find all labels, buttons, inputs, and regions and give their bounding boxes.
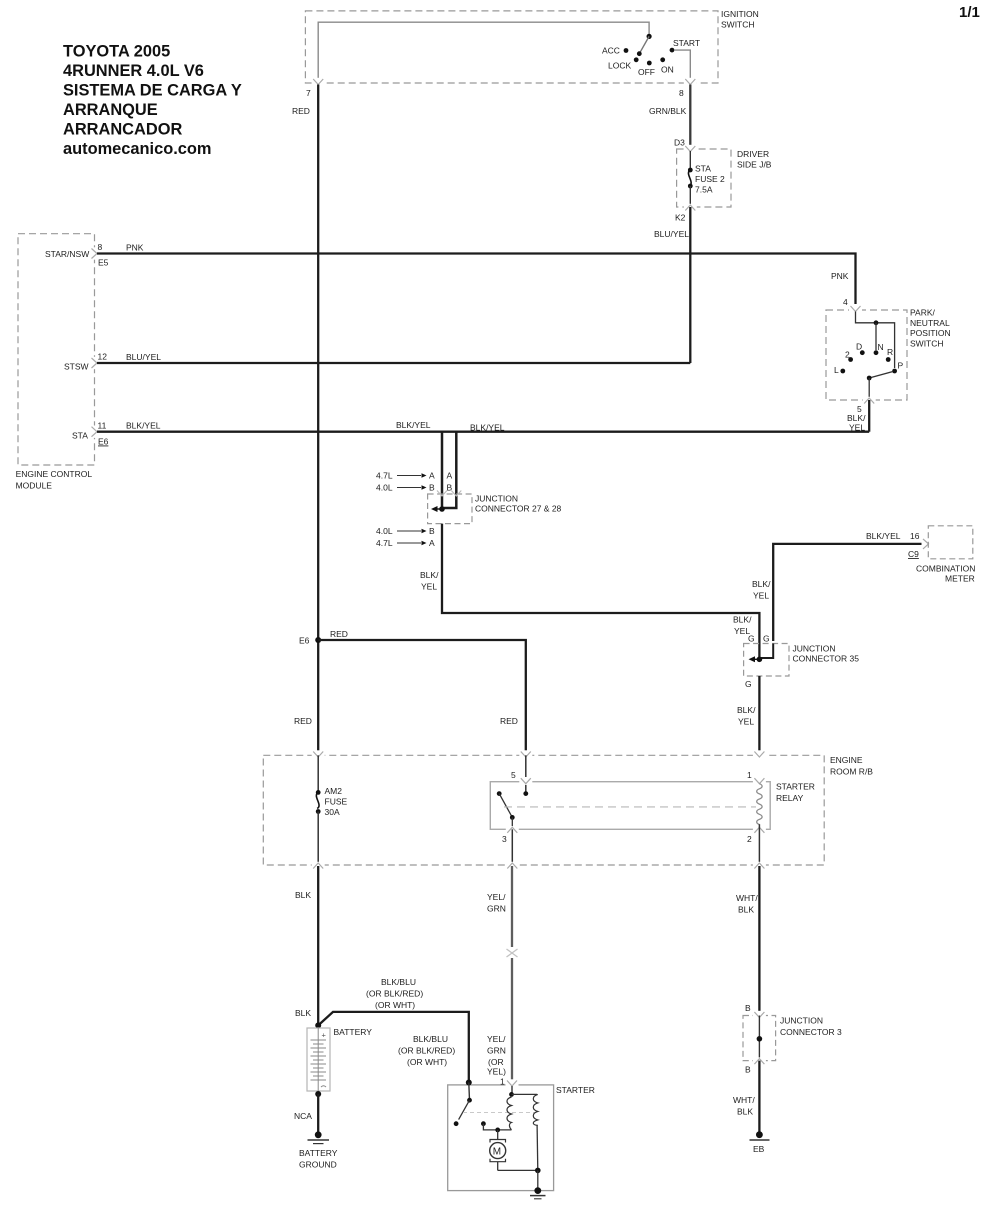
wire drop A (4.7L) to junction connector 27&28 bbox=[441, 432, 444, 509]
svg-text:GRN/BLK: GRN/BLK bbox=[649, 106, 687, 116]
collar pin (BLK) bottom bbox=[312, 862, 325, 870]
junction connector 27 & 28 box bbox=[428, 494, 562, 524]
junction dot inside JC27&28 bbox=[439, 506, 445, 512]
wire BLU/YEL ECM pin12 to K2 drop bbox=[97, 362, 690, 364]
svg-text:E6: E6 bbox=[299, 636, 310, 646]
svg-text:BATTERY: BATTERY bbox=[334, 1027, 373, 1037]
label 4.0L with arrow to B (upper) bbox=[376, 483, 435, 493]
svg-text:BLK: BLK bbox=[738, 905, 754, 915]
relay switch lever bbox=[499, 794, 512, 818]
wire RED branch E6 to starter relay pin 5 bbox=[318, 640, 526, 755]
label BLK/YEL above JC35 left pin bbox=[733, 615, 752, 637]
left arrow inside JC27&28 bbox=[431, 506, 438, 512]
svg-text:BLK: BLK bbox=[737, 1107, 753, 1117]
junction connector 3 box bbox=[743, 1016, 842, 1061]
svg-text:STSW: STSW bbox=[64, 362, 89, 372]
wire BLK/YEL ECM pin11 to P/N switch pin 5 bbox=[97, 431, 869, 433]
pin 8 collar bbox=[679, 78, 697, 98]
svg-text:WHT/: WHT/ bbox=[736, 893, 758, 903]
svg-text:PNK: PNK bbox=[126, 243, 144, 253]
svg-text:(OR BLK/RED): (OR BLK/RED) bbox=[366, 989, 423, 999]
relay mechanical link (dashed) bbox=[504, 806, 756, 808]
svg-text:B: B bbox=[429, 526, 435, 536]
wire RED vertical pin7 to engine room R/B bbox=[317, 85, 319, 756]
wire WHT/BLK engine room to JC3 bbox=[758, 866, 760, 1014]
wire inside ignition switch (pin7 to AM1 feed) bbox=[318, 22, 649, 82]
svg-text:4.0L: 4.0L bbox=[376, 526, 393, 536]
svg-text:5: 5 bbox=[511, 770, 516, 780]
svg-text:YEL: YEL bbox=[421, 582, 437, 592]
relay pin 5 collar bbox=[519, 777, 532, 785]
svg-text:FUSE 2: FUSE 2 bbox=[695, 174, 725, 184]
svg-text:D3: D3 bbox=[674, 138, 685, 148]
label BATTERY GROUND bbox=[299, 1148, 338, 1170]
svg-text:K2: K2 bbox=[675, 213, 686, 223]
ignition switch lever bbox=[639, 36, 649, 53]
svg-text:A: A bbox=[429, 538, 435, 548]
contact ON bbox=[660, 57, 673, 74]
left arrow inside JC35 bbox=[749, 656, 756, 662]
pin 7 collar bbox=[306, 78, 325, 98]
svg-text:30A: 30A bbox=[325, 807, 340, 817]
svg-text:ARRANQUE: ARRANQUE bbox=[63, 101, 158, 119]
svg-text:8: 8 bbox=[679, 88, 684, 98]
wire BLK/BLU battery to starter contact bbox=[318, 1012, 469, 1083]
svg-text:CONNECTOR 3: CONNECTOR 3 bbox=[780, 1027, 842, 1037]
svg-text:L: L bbox=[834, 365, 839, 375]
contact N bbox=[874, 342, 884, 355]
svg-text:G: G bbox=[763, 634, 770, 644]
contact D bbox=[856, 342, 865, 356]
svg-text:N: N bbox=[878, 342, 884, 352]
svg-text:CONNECTOR 35: CONNECTOR 35 bbox=[793, 654, 860, 664]
svg-text:PNK: PNK bbox=[831, 271, 849, 281]
starter B terminal node bbox=[466, 1080, 472, 1086]
wire inside P/N switch from pin 4 bbox=[856, 312, 895, 369]
svg-text:NCA: NCA bbox=[294, 1111, 312, 1121]
wire lever to pin 5 bbox=[868, 378, 870, 398]
inline connector on YEL/GRN wire bbox=[505, 947, 519, 958]
wire BLK engine room to battery bbox=[317, 866, 319, 1025]
driver side J/B box bbox=[677, 149, 772, 207]
JC35 internal wires bbox=[760, 644, 773, 659]
combination meter box bbox=[916, 526, 975, 584]
svg-text:TOYOTA 2005: TOYOTA 2005 bbox=[63, 43, 170, 61]
svg-text:1: 1 bbox=[747, 770, 752, 780]
pin 16 collar bbox=[922, 538, 931, 550]
motor M bbox=[490, 1140, 506, 1171]
svg-text:BLU/YEL: BLU/YEL bbox=[654, 229, 689, 239]
svg-text:M: M bbox=[493, 1147, 501, 1158]
svg-text:BLK/: BLK/ bbox=[847, 413, 866, 423]
battery negative node bbox=[315, 1091, 321, 1097]
starter ground bbox=[530, 1187, 546, 1199]
contact R bbox=[886, 347, 893, 362]
fuse STA FUSE 2 7.5A bbox=[688, 151, 725, 207]
svg-text:SWITCH: SWITCH bbox=[721, 20, 755, 30]
svg-text:STARTER: STARTER bbox=[556, 1085, 595, 1095]
JC3 pin collar bottom bbox=[753, 1057, 766, 1065]
svg-text:STA: STA bbox=[72, 431, 88, 441]
wire hold-in coil to bottom rail bbox=[536, 1125, 539, 1170]
pin labels A B (right column upper) bbox=[447, 471, 453, 493]
svg-text:RED: RED bbox=[500, 716, 518, 726]
wire GRN/BLK pin 8 to driver side J/B bbox=[689, 85, 691, 152]
svg-text:BLK: BLK bbox=[295, 1008, 311, 1018]
svg-text:R: R bbox=[887, 347, 893, 357]
svg-text:16: 16 bbox=[910, 531, 920, 541]
ECM pin 8 STAR/NSW bbox=[45, 242, 109, 268]
mechanical link (dashed) bbox=[463, 1112, 536, 1114]
svg-text:SISTEMA DE CARGA Y: SISTEMA DE CARGA Y bbox=[63, 82, 242, 100]
label BLK/BLU (OR BLK/RED) (OR WHT) lower bbox=[398, 1034, 455, 1067]
wire BLK/YEL JC35 to starter relay pin 1 bbox=[758, 676, 760, 755]
relay coil bbox=[757, 784, 762, 825]
svg-text:BLK/: BLK/ bbox=[752, 579, 771, 589]
fuse AM2 30A bbox=[316, 786, 348, 817]
wire pin 5 down to BLK/YEL line bbox=[868, 400, 870, 432]
wire lever to relay pin 3 bbox=[511, 817, 513, 829]
wire START to pin 8 bbox=[674, 50, 690, 81]
svg-text:automecanico.com: automecanico.com bbox=[63, 140, 211, 158]
wire RED to AM2 fuse bbox=[317, 755, 319, 792]
svg-text:ENGINE CONTROL: ENGINE CONTROL bbox=[16, 469, 93, 479]
svg-text:PARK/: PARK/ bbox=[910, 308, 936, 318]
wire NCA battery to ground bbox=[317, 1094, 319, 1135]
collar pin (YEL/GRN) bottom bbox=[506, 862, 519, 870]
svg-text:12: 12 bbox=[98, 352, 108, 362]
relay switch fixed contact bbox=[497, 791, 502, 796]
JC3 pin collar top bbox=[753, 1011, 766, 1019]
starter pin 1 collar bbox=[506, 1079, 519, 1087]
starter fixed contact bbox=[481, 1121, 486, 1126]
svg-text:STA: STA bbox=[695, 164, 711, 174]
svg-text:BLK/: BLK/ bbox=[420, 570, 439, 580]
engine control module box bbox=[16, 234, 95, 491]
svg-text:8: 8 bbox=[98, 242, 103, 252]
svg-text:G: G bbox=[745, 679, 752, 689]
contact START bbox=[670, 38, 700, 52]
label WHT/BLK below engine room bbox=[736, 893, 758, 915]
ignition switch box bbox=[305, 9, 758, 83]
svg-text:JUNCTION: JUNCTION bbox=[475, 494, 518, 504]
svg-text:STARTER: STARTER bbox=[776, 782, 815, 792]
relay pin 1 collar bbox=[753, 777, 766, 785]
bottom rail bbox=[498, 1169, 538, 1171]
label WHT/BLK lower bbox=[733, 1095, 755, 1117]
park/neutral position switch box bbox=[826, 308, 951, 401]
svg-text:E6: E6 bbox=[98, 437, 109, 447]
contact P bbox=[892, 361, 903, 374]
wire YEL/GRN relay pin3 to starter pin 1 bbox=[511, 866, 513, 1085]
wire contact to motor bbox=[483, 1124, 511, 1130]
pin G labels above JC35 bbox=[748, 634, 770, 644]
svg-text:GRN: GRN bbox=[487, 1046, 506, 1056]
JC3 internal wire and dot bbox=[758, 1016, 760, 1061]
pin K2 collar bbox=[675, 204, 697, 223]
wire drop B to junction connector 27&28 bbox=[443, 432, 456, 508]
svg-text:(OR BLK/RED): (OR BLK/RED) bbox=[398, 1046, 455, 1056]
collar pin (BLK/YEL) top bbox=[753, 750, 766, 758]
pin 4 collar bbox=[843, 297, 862, 313]
svg-text:G: G bbox=[748, 634, 755, 644]
svg-text:11: 11 bbox=[98, 421, 107, 431]
svg-text:CONNECTOR 27 & 28: CONNECTOR 27 & 28 bbox=[475, 504, 562, 514]
svg-text:4.7L: 4.7L bbox=[376, 538, 393, 548]
svg-text:A: A bbox=[447, 471, 453, 481]
svg-text:1: 1 bbox=[500, 1076, 505, 1086]
svg-text:BLK/BLU: BLK/BLU bbox=[413, 1034, 448, 1044]
relay switch common contact bbox=[523, 791, 528, 796]
svg-text:P: P bbox=[898, 361, 904, 371]
svg-text:B: B bbox=[745, 1065, 751, 1075]
svg-text:FUSE: FUSE bbox=[325, 797, 348, 807]
battery ground symbol bbox=[308, 1131, 330, 1143]
contact ACC bbox=[602, 46, 628, 56]
collar pin (WHT/BLK) bottom bbox=[753, 862, 766, 870]
svg-text:YEL: YEL bbox=[753, 591, 769, 601]
battery bbox=[307, 1028, 330, 1091]
svg-text:METER: METER bbox=[945, 574, 975, 584]
svg-text:GROUND: GROUND bbox=[299, 1160, 337, 1170]
svg-text:2: 2 bbox=[845, 350, 850, 360]
wire relay pin 2 to box bottom bbox=[758, 824, 760, 865]
svg-text:+: + bbox=[322, 1031, 327, 1040]
collar pin (RED right) top bbox=[519, 750, 532, 758]
node E6 on RED wire bbox=[299, 636, 321, 646]
svg-text:YEL): YEL) bbox=[487, 1067, 506, 1077]
svg-text:LOCK: LOCK bbox=[608, 61, 631, 71]
relay pin 3 collar bbox=[502, 826, 519, 844]
svg-text:4.7L: 4.7L bbox=[376, 471, 393, 481]
svg-text:BLK/BLU: BLK/BLU bbox=[381, 977, 416, 987]
svg-text:ARRANCADOR: ARRANCADOR bbox=[63, 121, 182, 139]
contact LOCK bbox=[608, 57, 639, 70]
svg-text:SWITCH: SWITCH bbox=[910, 339, 944, 349]
svg-text:BLK/YEL: BLK/YEL bbox=[866, 531, 901, 541]
starter box bbox=[448, 1085, 595, 1191]
svg-text:4RUNNER 4.0L V6: 4RUNNER 4.0L V6 bbox=[63, 62, 204, 80]
svg-text:WHT/: WHT/ bbox=[733, 1095, 755, 1105]
svg-text:(OR: (OR bbox=[488, 1057, 504, 1067]
wire PNK ECM pin8 to park/neutral switch pin 4 bbox=[97, 254, 856, 305]
svg-text:B: B bbox=[745, 1003, 751, 1013]
junction node in P/N switch bbox=[874, 320, 879, 325]
svg-text:MODULE: MODULE bbox=[16, 481, 53, 491]
label BLK/YEL below JC27&28 bbox=[420, 570, 439, 592]
svg-text:2: 2 bbox=[747, 834, 752, 844]
svg-text:START: START bbox=[673, 38, 700, 48]
svg-text:YEL: YEL bbox=[849, 423, 865, 433]
engine room R/B box bbox=[263, 755, 873, 865]
junction dot inside JC35 bbox=[757, 657, 763, 663]
wire BLU/YEL K2 down to STSW line bbox=[689, 207, 691, 363]
svg-text:YEL/: YEL/ bbox=[487, 1034, 506, 1044]
svg-text:D: D bbox=[856, 342, 862, 352]
svg-text:BLK/YEL: BLK/YEL bbox=[126, 421, 161, 431]
node to motor bbox=[495, 1128, 500, 1133]
svg-text:C9: C9 bbox=[908, 549, 919, 559]
svg-text:3: 3 bbox=[502, 834, 507, 844]
svg-text:SIDE J/B: SIDE J/B bbox=[737, 160, 772, 170]
relay pin 2 collar bbox=[747, 826, 766, 844]
svg-text:BLK/YEL: BLK/YEL bbox=[396, 420, 431, 430]
svg-text:7: 7 bbox=[306, 88, 311, 98]
wire YEL/GRN into starter windings bbox=[511, 1086, 513, 1094]
label 4.7L with arrow to A (lower) bbox=[376, 538, 435, 548]
svg-text:BLK/: BLK/ bbox=[737, 705, 756, 715]
label 4.7L with arrow to A (upper) bbox=[376, 471, 435, 481]
svg-text:NEUTRAL: NEUTRAL bbox=[910, 318, 950, 328]
svg-text:(OR WHT): (OR WHT) bbox=[375, 1000, 415, 1010]
collar pin (RED left) top bbox=[312, 750, 325, 758]
pull-in coil bbox=[507, 1097, 512, 1130]
label BLK/YEL below JC35 bbox=[737, 705, 756, 727]
starter moving contact bbox=[454, 1121, 459, 1126]
svg-text:ON: ON bbox=[661, 65, 674, 75]
svg-text:OFF: OFF bbox=[638, 67, 655, 77]
svg-text:GRN: GRN bbox=[487, 904, 506, 914]
ground EB bbox=[750, 1131, 770, 1154]
svg-text:COMBINATION: COMBINATION bbox=[916, 564, 975, 574]
svg-text:POSITION: POSITION bbox=[910, 328, 951, 338]
wire BLK/YEL JC35 to combination meter bbox=[773, 544, 926, 641]
P/N switch lever bbox=[869, 372, 893, 379]
label YEL/GRN below engine room bbox=[487, 892, 506, 914]
starter contact lever bbox=[459, 1100, 470, 1119]
svg-text:BLK/YEL: BLK/YEL bbox=[470, 423, 505, 433]
svg-text:7.5A: 7.5A bbox=[695, 185, 713, 195]
jumper to field coils bbox=[512, 1093, 538, 1095]
svg-text:(OR WHT): (OR WHT) bbox=[407, 1057, 447, 1067]
JC27&28 pin collars bbox=[437, 491, 447, 497]
ECM pin 11 STA bbox=[72, 421, 109, 447]
svg-text:EB: EB bbox=[753, 1144, 765, 1154]
junction connector 35 box bbox=[744, 644, 860, 677]
wire RED into relay pin 5 bbox=[525, 755, 527, 793]
svg-text:RED: RED bbox=[330, 629, 348, 639]
battery positive node bbox=[315, 1022, 321, 1028]
svg-text:AM2: AM2 bbox=[325, 786, 343, 796]
wire WHT/BLK JC3 to EB ground bbox=[758, 1061, 760, 1135]
hold-in coil bbox=[533, 1094, 538, 1125]
svg-text:BATTERY: BATTERY bbox=[299, 1148, 338, 1158]
contact OFF bbox=[638, 61, 655, 77]
svg-text:BLK/: BLK/ bbox=[733, 615, 752, 625]
svg-text:4: 4 bbox=[843, 297, 848, 307]
title block bbox=[63, 43, 242, 159]
wire relay pin 3 to box bottom bbox=[511, 829, 513, 865]
contact 2 bbox=[845, 350, 853, 362]
ignition switch pivot contact bbox=[647, 34, 652, 39]
svg-text:JUNCTION: JUNCTION bbox=[793, 644, 836, 654]
svg-text:BLU/YEL: BLU/YEL bbox=[126, 352, 161, 362]
svg-text:JUNCTION: JUNCTION bbox=[780, 1016, 823, 1026]
svg-text:YEL/: YEL/ bbox=[487, 892, 506, 902]
svg-text:ACC: ACC bbox=[602, 46, 620, 56]
svg-text:B: B bbox=[429, 483, 435, 493]
label YEL/GRN (OR YEL) at starter bbox=[487, 1034, 506, 1077]
stub to N contact bbox=[875, 323, 877, 350]
svg-text:RED: RED bbox=[294, 716, 312, 726]
svg-text:STAR/NSW: STAR/NSW bbox=[45, 249, 89, 259]
starter solenoid contact stem bbox=[468, 1083, 471, 1101]
label BLK/YEL (pin 5) bbox=[847, 413, 866, 433]
svg-text:ROOM R/B: ROOM R/B bbox=[830, 767, 873, 777]
svg-text:1/1: 1/1 bbox=[959, 4, 980, 21]
svg-text:RED: RED bbox=[292, 106, 310, 116]
label BLK/BLU (OR BLK/RED) (OR WHT) upper bbox=[366, 977, 423, 1010]
svg-text:A: A bbox=[429, 471, 435, 481]
svg-text:RELAY: RELAY bbox=[776, 793, 804, 803]
svg-text:DRIVER: DRIVER bbox=[737, 149, 769, 159]
svg-text:BLK: BLK bbox=[295, 890, 311, 900]
wire rail to starter ground bbox=[537, 1170, 539, 1190]
contact L bbox=[834, 365, 845, 375]
svg-text:IGNITION: IGNITION bbox=[721, 9, 759, 19]
label 4.0L with arrow to B (lower) bbox=[376, 526, 435, 536]
svg-text:ENGINE: ENGINE bbox=[830, 755, 863, 765]
svg-text:4.0L: 4.0L bbox=[376, 483, 393, 493]
svg-text:E5: E5 bbox=[98, 258, 109, 268]
svg-text:YEL: YEL bbox=[738, 717, 754, 727]
ECM pin 12 STSW bbox=[64, 352, 107, 372]
pin 5 collar bbox=[857, 397, 876, 414]
wire AM2 fuse to box bottom bbox=[317, 812, 319, 866]
wire BLK/YEL JC27&28 to JC35 bbox=[442, 524, 759, 660]
starter relay box bbox=[490, 782, 815, 830]
label BLK/YEL above JC35 right pin bbox=[752, 579, 771, 601]
pin D3 collar bbox=[684, 145, 697, 153]
